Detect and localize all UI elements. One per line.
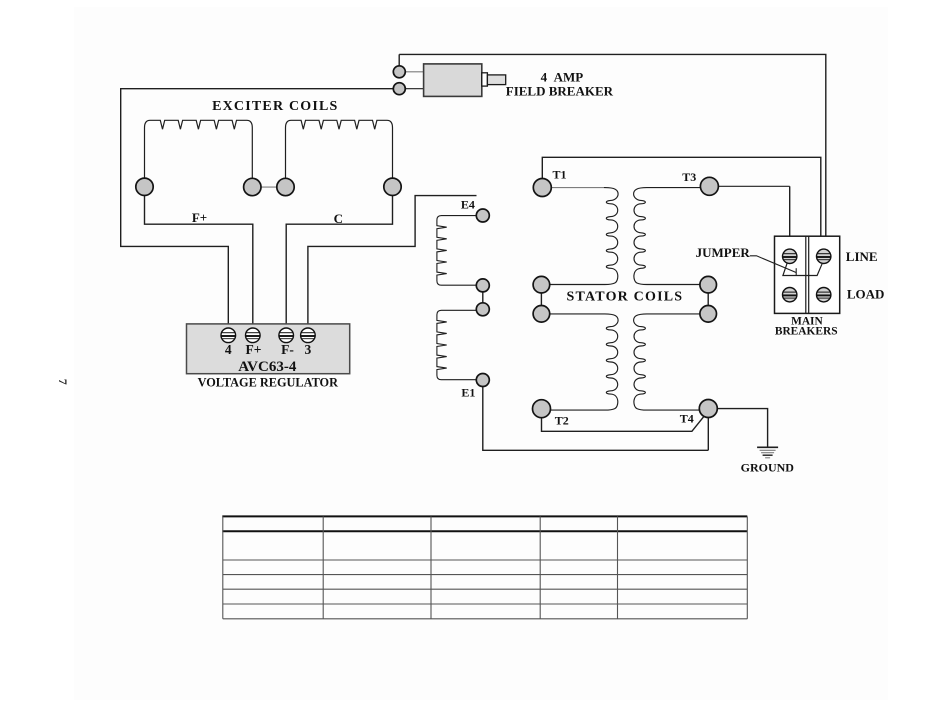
svg-text:EXCITER COILS: EXCITER COILS: [212, 99, 338, 114]
svg-text:7: 7: [56, 379, 70, 385]
svg-text:AVC63-4: AVC63-4: [238, 359, 297, 375]
svg-text:T4: T4: [680, 411, 694, 425]
svg-text:E1: E1: [461, 386, 475, 400]
svg-text:VOLTAGE REGULATOR: VOLTAGE REGULATOR: [198, 376, 339, 390]
svg-text:4: 4: [225, 342, 232, 357]
svg-text:4 AMP: 4 AMP: [541, 69, 584, 84]
svg-text:JUMPER: JUMPER: [696, 245, 751, 260]
svg-text:LOAD: LOAD: [847, 286, 885, 301]
svg-text:STATOR COILS: STATOR COILS: [567, 290, 684, 305]
svg-text:F+: F+: [192, 210, 207, 225]
svg-text:T1: T1: [552, 168, 566, 182]
svg-text:BREAKERS: BREAKERS: [775, 326, 838, 338]
svg-text:C: C: [334, 211, 343, 226]
svg-text:T2: T2: [555, 414, 569, 428]
svg-text:T3: T3: [682, 170, 696, 184]
svg-text:LINE: LINE: [846, 249, 878, 264]
svg-text:3: 3: [305, 342, 312, 357]
svg-text:F-: F-: [281, 342, 294, 357]
svg-text:F+: F+: [246, 342, 262, 357]
svg-text:GROUND: GROUND: [741, 461, 795, 475]
svg-text:E4: E4: [461, 198, 475, 212]
svg-text:FIELD BREAKER: FIELD BREAKER: [506, 83, 614, 98]
